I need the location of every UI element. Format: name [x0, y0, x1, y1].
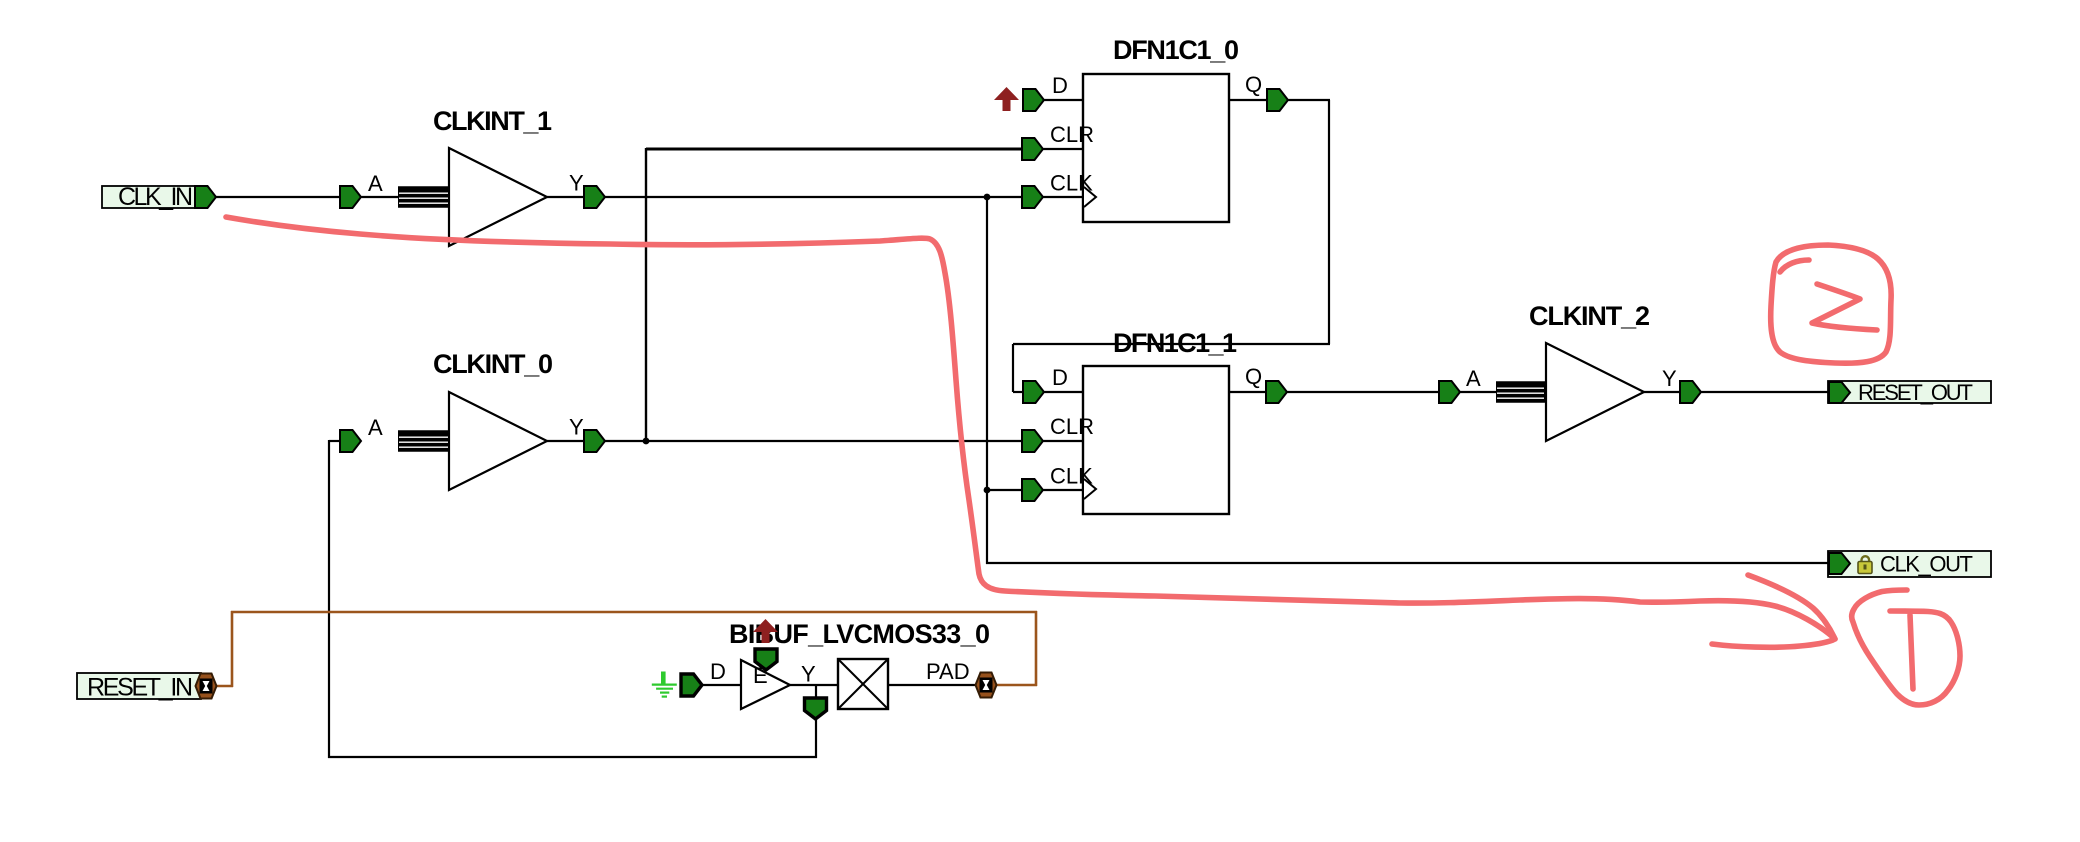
svg-text:D: D	[1052, 365, 1068, 390]
svg-text:RESET_IN: RESET_IN	[87, 674, 193, 702]
svg-text:CLK: CLK	[1050, 171, 1093, 196]
svg-text:D: D	[710, 659, 726, 684]
svg-text:CLK: CLK	[1050, 464, 1093, 489]
svg-text:Y: Y	[801, 662, 816, 687]
svg-text:Y: Y	[1662, 366, 1677, 391]
svg-text:Y: Y	[569, 415, 584, 440]
svg-text:A: A	[368, 415, 383, 440]
svg-text:CLKINT_0: CLKINT_0	[433, 349, 553, 379]
svg-text:Q: Q	[1245, 72, 1262, 97]
svg-text:CLKINT_1: CLKINT_1	[433, 106, 552, 136]
svg-text:CLR: CLR	[1050, 122, 1094, 147]
svg-text:E: E	[753, 663, 768, 688]
svg-text:CLK_OUT: CLK_OUT	[1880, 552, 1973, 577]
svg-text:A: A	[1466, 366, 1481, 391]
svg-text:D: D	[1052, 73, 1068, 98]
svg-text:CLKINT_2: CLKINT_2	[1529, 301, 1650, 331]
svg-text:RESET_OUT: RESET_OUT	[1858, 380, 1973, 405]
svg-text:CLR: CLR	[1050, 414, 1094, 439]
svg-text:Q: Q	[1245, 364, 1262, 389]
svg-text:CLK_IN: CLK_IN	[118, 183, 193, 211]
svg-text:A: A	[368, 171, 383, 196]
svg-text:PAD: PAD	[926, 659, 970, 684]
svg-text:DFN1C1_0: DFN1C1_0	[1113, 35, 1239, 65]
svg-text:Y: Y	[569, 171, 584, 196]
